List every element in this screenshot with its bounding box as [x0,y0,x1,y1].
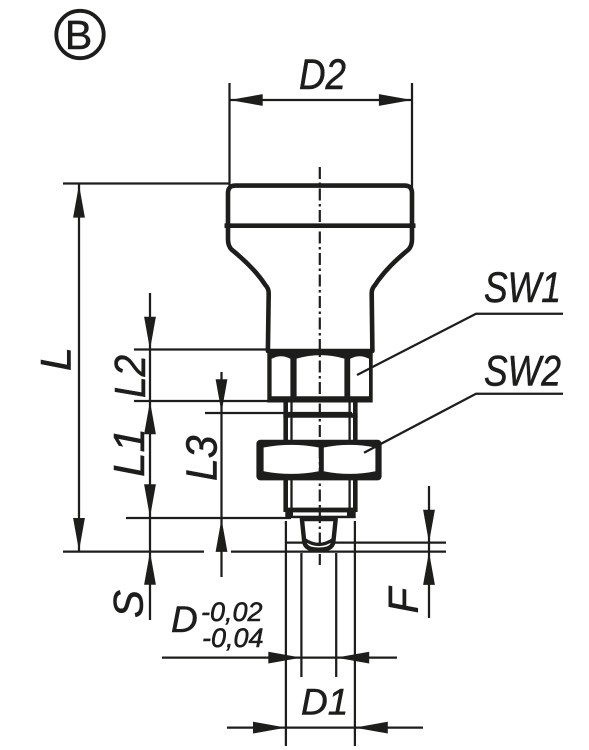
arrow L1 bottom (down) [144,484,156,517]
svg-text:F: F [380,586,427,614]
dim D2 extension left [228,83,230,190]
nut SW2 face left [264,445,319,474]
pin inner arc [305,540,333,545]
nut SW2 block [256,440,381,481]
arrowheads [73,94,435,733]
arrow L2 top (down, outside) [144,317,156,350]
svg-text:D1: D1 [301,682,348,723]
arrow L bottom [73,518,85,551]
arrow D right (left-pointing) [336,652,369,664]
ext line hex bottom [134,400,269,402]
hex SW1 face middle [297,355,345,396]
svg-text:L3: L3 [178,435,227,481]
ext line pin left [300,553,302,677]
ext line pin right [335,553,337,677]
arrow L3 top (down, outside) [216,379,228,412]
sleeve end face slit [293,512,347,515]
svg-text:SW1: SW1 [484,264,561,312]
leader SW1 [357,314,563,375]
sleeve end face [285,508,355,519]
svg-text:L1: L1 [105,428,154,477]
arrow D left (right-pointing) [268,652,301,664]
arrow F top (down, outside) [423,510,435,543]
hex SW1 block [267,349,372,402]
dim D line [162,656,397,658]
ext line thread top L3 [205,412,352,414]
centerline [319,167,321,565]
ext line pin tip [63,550,204,552]
svg-text:L: L [33,347,81,371]
dim D1 line [227,726,423,728]
svg-text:S: S [105,590,152,618]
hex SW1 face right [350,356,369,396]
arrow F bottom (up, outside) [423,552,435,585]
ext line D left [285,521,287,746]
arrow L1 top (up) [144,401,156,434]
arrow L3 bottom (up, outside) [216,519,228,552]
knob cap line [225,223,416,228]
thread start line [283,413,357,418]
arrow L top [73,185,85,218]
nut SW2 face right [324,445,376,474]
svg-text:B: B [65,12,92,58]
view label B circle [56,11,103,58]
svg-text:D2: D2 [299,51,346,98]
dim L top extension [63,182,229,184]
dim L2 L1 S line [149,293,151,620]
hex SW1 face left [272,356,291,396]
ext line hex top [134,348,271,350]
arrow D1 left (right-pointing) [253,722,286,734]
thread outer right [353,400,358,512]
ext line pin chamfer [285,541,446,543]
svg-text:-0,04: -0,04 [202,623,264,653]
svg-text:SW2: SW2 [484,347,561,395]
arrow S bottom (up, outside) [144,552,156,585]
svg-text:L2: L2 [105,355,155,398]
pin [302,519,336,550]
ext line D right [354,521,356,746]
dim D2 line [230,99,413,101]
thread root left [290,400,292,509]
dim L line [78,184,80,552]
dim D2 extension right [411,83,413,190]
body of plunger [225,186,416,550]
knob outline [228,186,412,351]
arrow D2 left [230,94,263,106]
dim F line [428,486,430,618]
arrow D1 right (left-pointing) [355,722,388,734]
svg-text:D: D [171,599,198,640]
thread outer left [283,400,288,512]
leader SW2 [364,394,563,453]
thread root right [348,400,350,509]
ext line sleeve end [126,517,291,519]
arrow D2 right [379,94,412,106]
dim L3 line [220,372,222,577]
